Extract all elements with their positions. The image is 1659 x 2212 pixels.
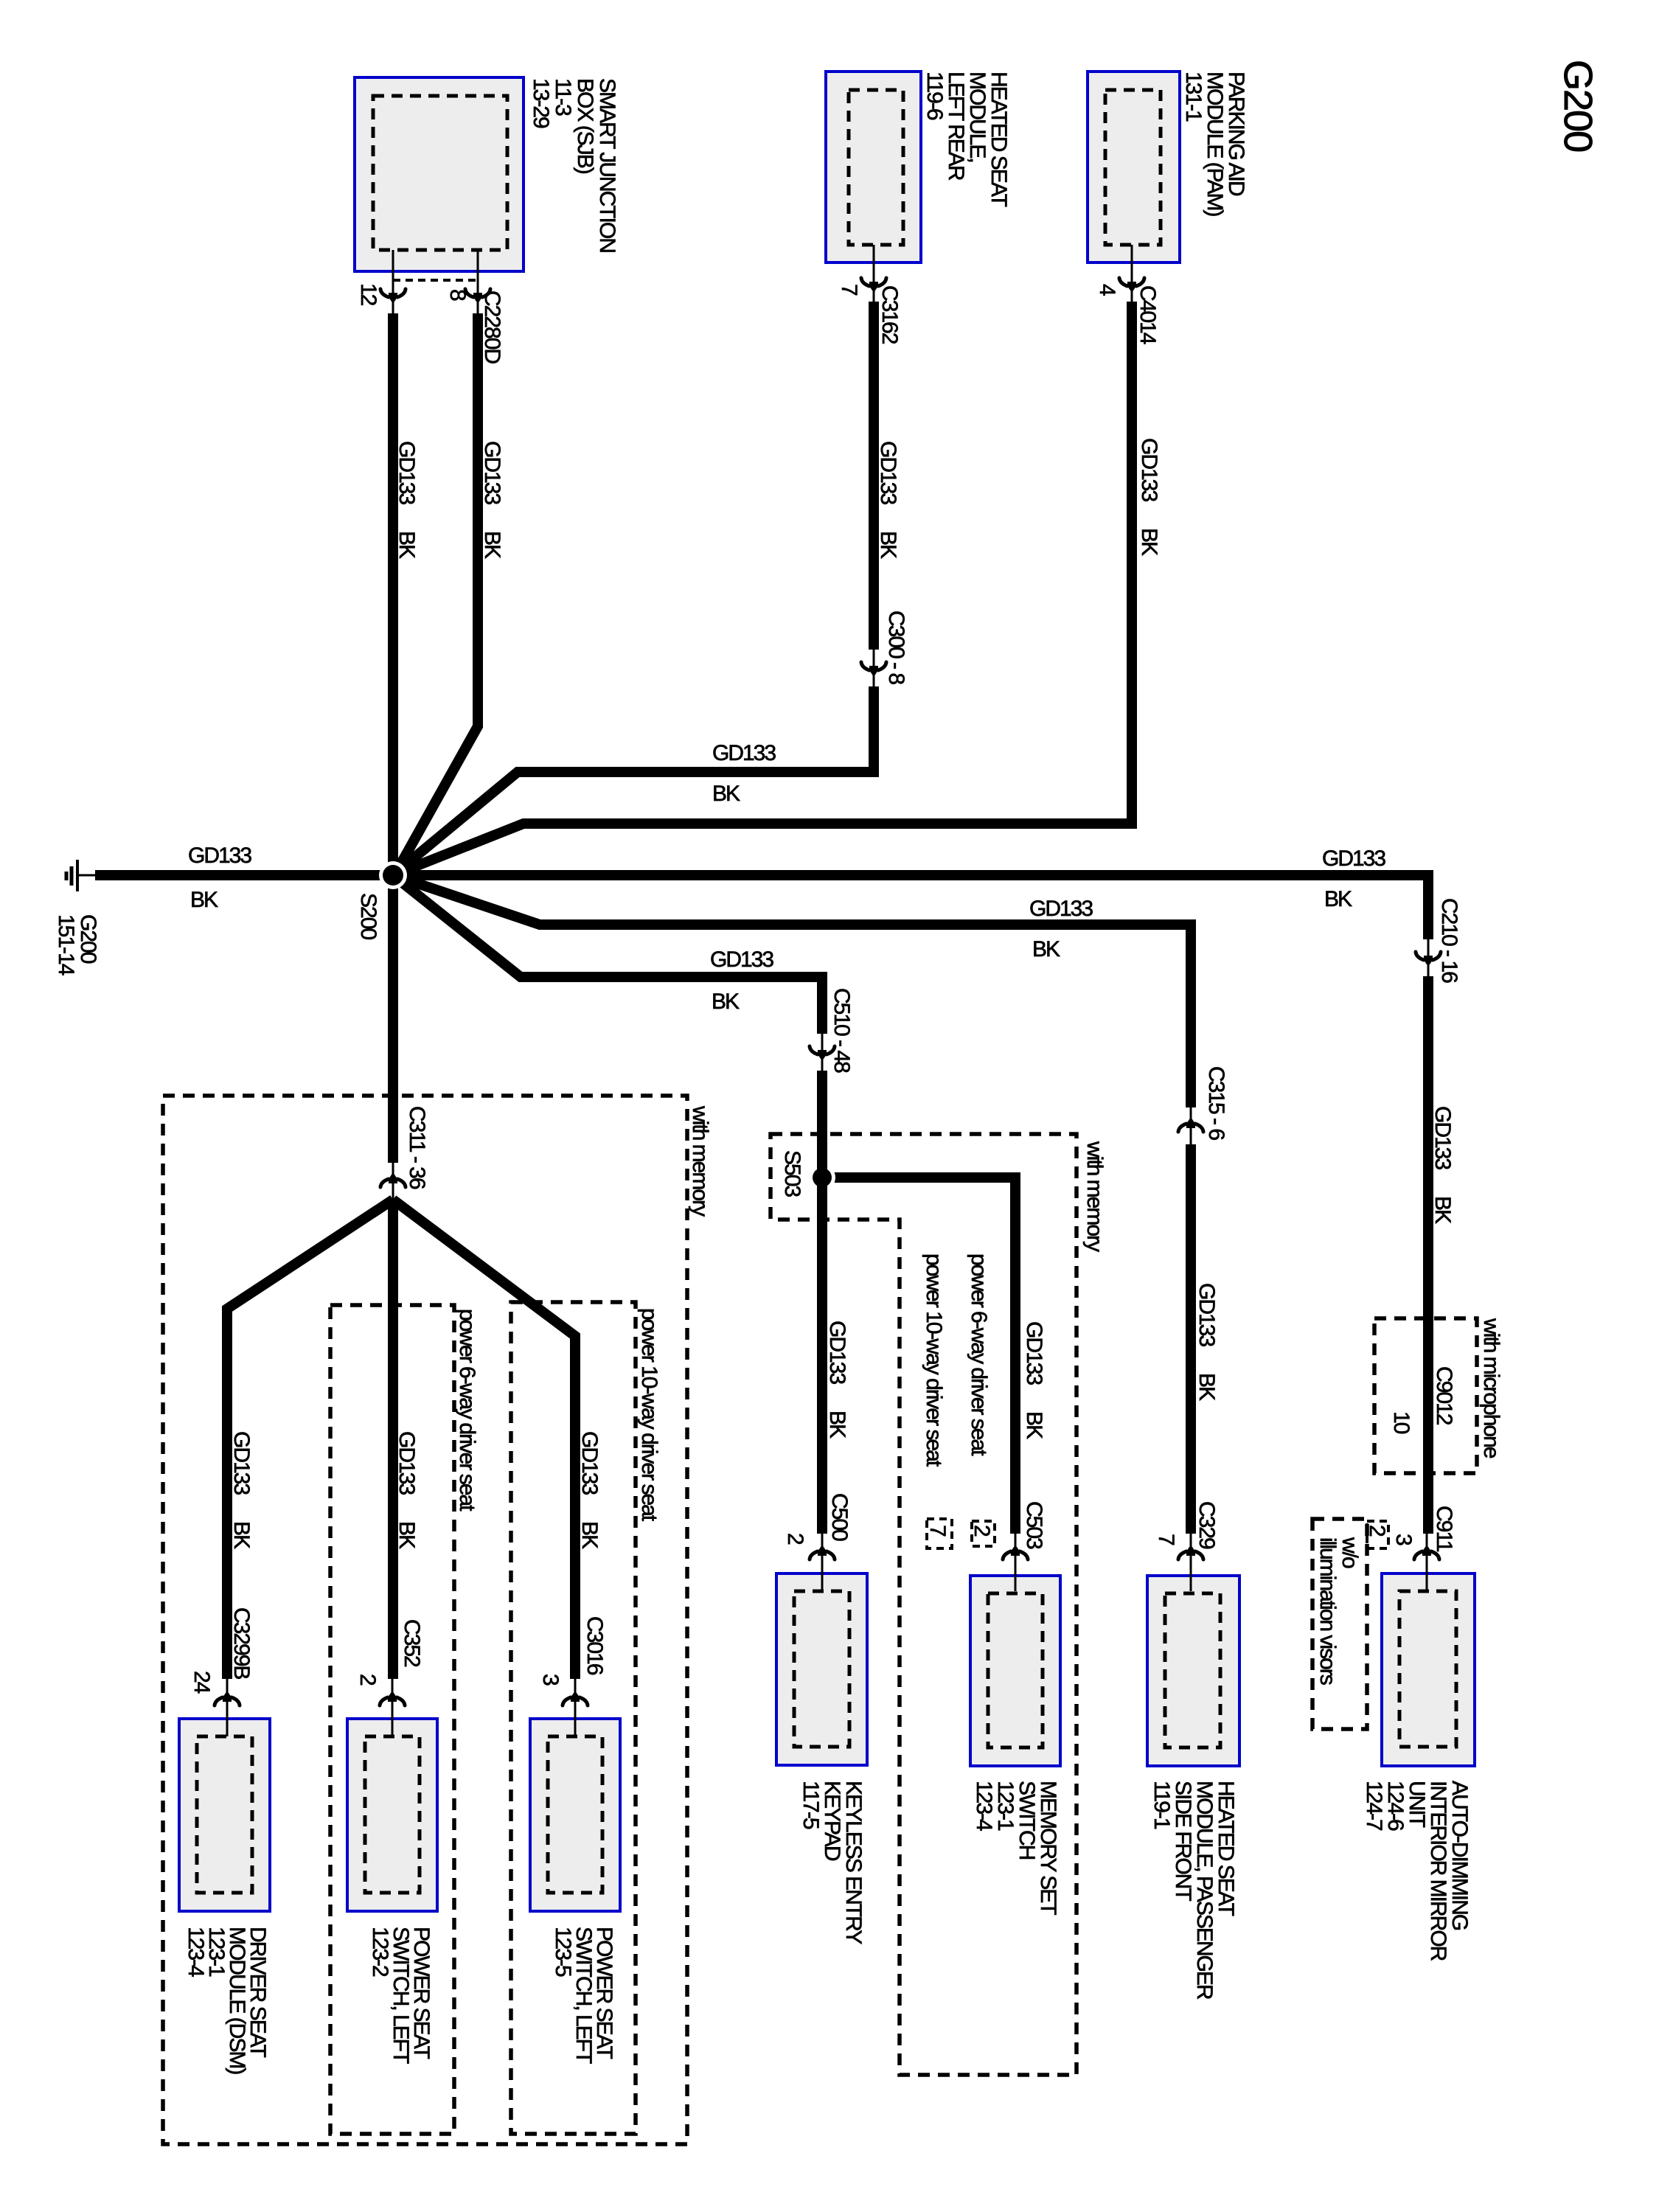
svg-text:GD133BK: GD133BK [1137, 438, 1161, 556]
svg-text:C4014: C4014 [1135, 285, 1160, 344]
svg-text:7: 7 [1154, 1534, 1178, 1545]
svg-text:BK: BK [190, 888, 218, 912]
svg-text:BK: BK [1032, 937, 1060, 961]
svg-text:BK: BK [712, 782, 740, 806]
svg-text:GD133: GD133 [712, 741, 776, 765]
svg-text:12: 12 [356, 283, 380, 306]
pin line keyless keypad pin 2 [821, 1534, 824, 1591]
svg-text:S200: S200 [356, 893, 380, 939]
svg-text:10: 10 [1389, 1411, 1413, 1434]
pin line SJB pin 12 [392, 250, 394, 313]
svg-text:C503: C503 [1022, 1501, 1046, 1549]
junction S503 dot [813, 1168, 832, 1187]
wire GD133 BK: ground G200 to S200 [95, 870, 393, 880]
power seat switch left 123-2 box [347, 1719, 437, 1911]
svg-text:GD133BK: GD133BK [577, 1431, 602, 1549]
pin option box 2 (C503) [972, 1521, 995, 1546]
svg-text:C329: C329 [1194, 1501, 1219, 1549]
pin line heated seat left rear pin 7 [873, 245, 875, 302]
option region: power 6-way driver seat [330, 1305, 454, 2134]
wire: S503 branch to memory set switch C503 [822, 1178, 1015, 1534]
svg-text:C210 - 16: C210 - 16 [1437, 898, 1461, 983]
junction S200 dot [383, 865, 403, 886]
svg-text:GD133BK: GD133BK [876, 441, 900, 559]
svg-text:C911: C911 [1432, 1506, 1456, 1552]
svg-text:8: 8 [445, 289, 470, 301]
svg-text:GD133BK: GD133BK [229, 1431, 254, 1549]
pin line power seat switch 123-5 pin 3 [574, 1679, 577, 1736]
wire w3: S200 to auto-dimming mirror via C210-16 [393, 875, 1428, 1534]
arrow connector C4014 [1119, 278, 1144, 293]
svg-text:GD133: GD133 [1322, 846, 1385, 871]
memory set switch box [970, 1576, 1060, 1766]
wire: Y branch to DSM C3299B [227, 1200, 393, 1679]
pin option box 2 (C911) [1367, 1521, 1388, 1548]
svg-text:C510 - 48: C510 - 48 [829, 988, 854, 1073]
parking aid module (PAM) box [1088, 72, 1180, 262]
svg-text:power 6-way driver seat: power 6-way driver seat [455, 1309, 479, 1512]
driver seat module (DSM) box [179, 1719, 270, 1911]
svg-text:3: 3 [538, 1674, 563, 1686]
gap line connector C315-6 [1190, 1107, 1192, 1144]
gap line connector C210-16 [1427, 939, 1430, 976]
arrow connector C315-6 [1178, 1117, 1203, 1132]
svg-text:C3299B: C3299B [229, 1607, 254, 1679]
option region: power 10-way driver seat [511, 1302, 636, 2134]
svg-text:24: 24 [189, 1671, 214, 1694]
svg-text:2: 2 [783, 1533, 807, 1545]
pin option box 7 (C503) [927, 1519, 952, 1548]
svg-text:C311 - 36: C311 - 36 [405, 1106, 429, 1189]
svg-text:GD133BK: GD133BK [1022, 1321, 1046, 1439]
svg-text:GD133BK: GD133BK [394, 441, 419, 559]
svg-text:2: 2 [970, 1525, 994, 1537]
arrow connector C210-16 [1416, 952, 1441, 967]
svg-text:C2280D: C2280D [480, 291, 504, 364]
junction S503 halo [809, 1164, 835, 1191]
svg-text:7: 7 [925, 1525, 950, 1537]
svg-text:C300 - 8: C300 - 8 [884, 611, 908, 684]
option region: w/o illumination visors [1312, 1519, 1367, 1729]
arrow connector C300-8 [861, 662, 886, 677]
gap line connector C300-8 [873, 650, 875, 686]
svg-text:GD133BK: GD133BK [394, 1431, 419, 1549]
arrow connector C911 [1414, 1545, 1439, 1559]
wire stub through S503 halo [817, 1158, 827, 1198]
svg-text:BK: BK [1324, 887, 1352, 911]
wire GD133 BK: SJB pin 8 C2280D to S200 [394, 313, 478, 875]
svg-text:C3016: C3016 [582, 1616, 607, 1675]
svg-text:2: 2 [1365, 1525, 1389, 1537]
pin line SJB pin 8 [477, 250, 479, 313]
svg-text:GD133BK: GD133BK [1430, 1106, 1455, 1224]
svg-text:GD133BK: GD133BK [825, 1321, 849, 1439]
svg-text:GD133: GD133 [188, 844, 251, 868]
arrow connector C510-48 [810, 1046, 835, 1061]
wire w1: S200 to heated seat module left rear via C300-8 [393, 302, 874, 875]
connector C2280D dashed link between SJB pins [393, 279, 478, 282]
arrow connector C3299B [215, 1691, 240, 1705]
svg-text:4: 4 [1095, 284, 1119, 296]
svg-text:7: 7 [837, 284, 861, 296]
pin line memory set switch pin 2 [1015, 1534, 1017, 1591]
junction S200 halo [379, 861, 407, 889]
arrow connector SJB pin 12 [380, 289, 406, 304]
svg-text:power 6-way driver seat: power 6-way driver seat [967, 1253, 991, 1456]
wire: C311-36 lower segment with Y split [388, 1200, 398, 1679]
pin line mirror pin 3 [1426, 1534, 1428, 1591]
svg-text:power 10-way driver seat: power 10-way driver seat [637, 1308, 661, 1522]
arrow connector C3162 [861, 278, 886, 293]
arrow connector C500 [810, 1545, 835, 1559]
wire w2: S200 to PAM C4014 [393, 302, 1132, 875]
svg-text:with microphone: with microphone [1479, 1318, 1503, 1458]
option region: with memory (left) [163, 1096, 687, 2144]
svg-text:GD133: GD133 [1029, 897, 1093, 921]
power seat switch left 123-5 box [530, 1719, 620, 1911]
heated seat module passenger side front box [1147, 1576, 1239, 1766]
pin line PAM pin 4 [1131, 245, 1133, 302]
svg-text:BK: BK [712, 990, 740, 1014]
svg-text:C315 - 6: C315 - 6 [1204, 1066, 1228, 1140]
ground symbol G200 [66, 860, 98, 891]
arrow connector C503 [1003, 1545, 1028, 1559]
wire: Y branch to C3016 [393, 1200, 575, 1679]
svg-text:power 10-way driver seat: power 10-way driver seat [922, 1253, 946, 1467]
smart junction box (SJB) [355, 77, 524, 271]
svg-text:with memory: with memory [1082, 1141, 1107, 1252]
svg-text:C3162: C3162 [877, 285, 902, 344]
svg-text:GD133BK: GD133BK [1194, 1283, 1219, 1401]
gap line connector C311-36 [392, 1163, 394, 1200]
option region: C9012 with microphone [1374, 1318, 1477, 1473]
heated seat module left rear box [826, 72, 921, 262]
auto-dimming interior mirror unit box [1382, 1573, 1475, 1766]
arrow connector C329 [1178, 1545, 1203, 1559]
svg-text:with memory: with memory [688, 1105, 712, 1217]
arrow connector SJB pin 8 (C2280D) [465, 289, 490, 304]
pin line heated seat passenger pin 7 [1190, 1534, 1192, 1591]
svg-text:S503: S503 [780, 1150, 804, 1197]
svg-text:2: 2 [355, 1674, 380, 1686]
wire GD133 BK: SJB pin 12 to S200 (main vertical) [388, 313, 398, 1163]
keyless entry keypad box [776, 1573, 867, 1765]
arrow connector C3016 [563, 1691, 588, 1705]
svg-text:G200: G200 [1556, 60, 1600, 151]
svg-text:C9012: C9012 [1432, 1366, 1456, 1425]
svg-text:3: 3 [1391, 1534, 1416, 1545]
svg-text:C500: C500 [827, 1493, 852, 1541]
gap line connector C510-48 [821, 1034, 824, 1071]
wire w5: S200 to S503 via C510-48 [393, 875, 822, 1534]
wire w4: S200 to heated seat passenger via C315-6 and C329 [393, 875, 1191, 1534]
pin line DSM pin 24 [226, 1679, 229, 1736]
svg-text:GD133: GD133 [710, 947, 773, 972]
svg-text:GD133BK: GD133BK [480, 441, 504, 559]
arrow connector C311-36 [380, 1172, 406, 1187]
option region: with memory (right, notched polygon) [771, 1134, 1077, 2075]
arrow connector C352 [380, 1691, 405, 1705]
svg-text:C352: C352 [400, 1619, 424, 1667]
pin line power seat switch 123-2 pin 2 [392, 1679, 394, 1736]
